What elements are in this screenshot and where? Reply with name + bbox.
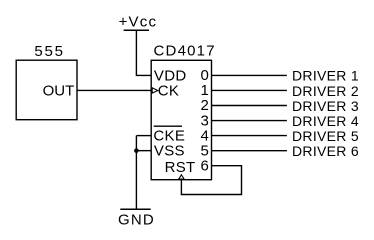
overline for CKE <box>154 125 182 127</box>
wire VSS to junction <box>136 150 151 152</box>
svg-text:VSS: VSS <box>154 143 185 160</box>
wire output 2 <box>212 105 287 107</box>
svg-text:DRIVER 6: DRIVER 6 <box>292 143 359 159</box>
svg-text:CD4017: CD4017 <box>154 43 216 60</box>
svg-text:CK: CK <box>158 83 179 100</box>
svg-text:DRIVER 2: DRIVER 2 <box>292 83 359 99</box>
svg-text:DRIVER 3: DRIVER 3 <box>292 98 359 114</box>
clock input arrow at CK pin <box>152 88 158 93</box>
wire pin6 feedback to RST <box>181 166 241 195</box>
wire OUT to CK <box>77 89 152 91</box>
svg-text:DRIVER 4: DRIVER 4 <box>292 113 359 129</box>
svg-text:GND: GND <box>118 212 155 229</box>
junction dot <box>134 148 139 153</box>
555 timer U1 box <box>16 60 77 119</box>
wire output 1 <box>212 89 287 91</box>
wire Vcc to VDD pin <box>136 30 151 75</box>
svg-text:+Vcc: +Vcc <box>119 13 158 30</box>
svg-text:DRIVER 5: DRIVER 5 <box>292 128 359 144</box>
+Vcc power symbol <box>119 13 158 30</box>
wire output 3 <box>212 120 287 122</box>
svg-text:OUT: OUT <box>43 82 75 99</box>
svg-text:555: 555 <box>34 43 64 60</box>
svg-text:DRIVER 1: DRIVER 1 <box>292 68 359 84</box>
wire output 4 <box>212 135 287 137</box>
IC CD4017 U2 box <box>151 60 211 179</box>
svg-text:RST: RST <box>165 159 196 176</box>
wire CKE to junction <box>136 135 151 137</box>
ground symbol <box>118 209 155 228</box>
RST input arrow <box>179 175 184 179</box>
svg-text:6: 6 <box>201 157 209 174</box>
wire down to ground <box>135 136 137 210</box>
wire output 5 <box>212 150 287 152</box>
wire output 0 <box>212 74 287 76</box>
